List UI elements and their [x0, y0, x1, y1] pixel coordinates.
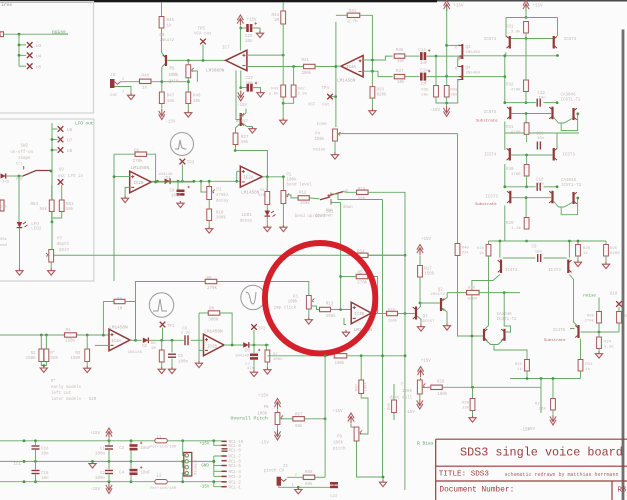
- wire -15V rail: [0, 481, 155, 483]
- pin U4: [27, 53, 33, 59]
- wire pitch sum line: [0, 334, 109, 336]
- svg-text:VCF: VCF: [308, 104, 316, 108]
- svg-text:150K: 150K: [70, 357, 81, 361]
- header pin RC1-3: [222, 475, 227, 477]
- svg-text:SW2: SW2: [21, 145, 29, 149]
- wire one-shot pulse to R9: [136, 282, 206, 341]
- svg-text:R23: R23: [535, 403, 543, 407]
- wire +15V down: [525, 8, 527, 18]
- wire P4 wiper to R40 net: [338, 133, 458, 135]
- svg-text:R46: R46: [193, 95, 201, 99]
- svg-text:R12: R12: [299, 192, 307, 196]
- ground below C7: [250, 370, 257, 377]
- testpoint TP2: [251, 324, 257, 330]
- svg-text:470R: 470R: [511, 173, 521, 177]
- svg-text:470R: 470R: [511, 131, 521, 135]
- svg-text:-15V: -15V: [430, 109, 441, 113]
- svg-text:IC3A: IC3A: [346, 66, 357, 70]
- potentiometer P7 depth: [49, 250, 54, 263]
- wire bend node down: [404, 255, 406, 313]
- junction IC1A out: [134, 339, 137, 342]
- svg-text:2.2n: 2.2n: [181, 332, 191, 336]
- wire Q1 emitter: [417, 316, 421, 325]
- svg-text:5.6k: 5.6k: [269, 92, 279, 97]
- svg-text:100n: 100n: [95, 477, 106, 481]
- wire T2 collector tie: [504, 293, 510, 332]
- svg-text:C27: C27: [246, 77, 254, 81]
- wire to R6: [161, 340, 163, 350]
- svg-text:CA3046: CA3046: [561, 94, 577, 98]
- -15V arrow below IC7: [238, 91, 244, 102]
- svg-text:100k: 100k: [326, 314, 337, 319]
- wire to ground: [382, 477, 384, 480]
- svg-text:R36: R36: [396, 49, 404, 53]
- svg-text:VCA out: VCA out: [194, 33, 212, 37]
- wire R63 bottom: [52, 212, 62, 219]
- svg-text:R65: R65: [587, 315, 595, 319]
- wire Q1 collector diag: [417, 303, 420, 310]
- svg-text:C1: C1: [100, 448, 106, 452]
- transistor Q6 2N5172: [165, 55, 167, 66]
- wire IC4 T4 emitter to bias node: [472, 275, 500, 388]
- svg-text:300k: 300k: [216, 216, 227, 221]
- wire SW1 to R14: [343, 191, 357, 194]
- ground at mid rail: [89, 461, 96, 468]
- svg-text:3.3k: 3.3k: [298, 92, 308, 97]
- resistor R44 1M: [281, 11, 286, 24]
- svg-text:+15V: +15V: [421, 238, 432, 242]
- wire T4 emitter: [505, 52, 507, 55]
- svg-text:3.9k: 3.9k: [511, 30, 521, 35]
- svg-text:10k: 10k: [397, 59, 405, 64]
- capacitor C1 100n: [105, 445, 113, 449]
- transistor IC5T4: [509, 148, 511, 161]
- svg-text:RC1-3: RC1-3: [229, 476, 242, 480]
- svg-text:1.8k: 1.8k: [511, 226, 521, 231]
- junction R27 node: [234, 149, 237, 152]
- svg-text:-15V: -15V: [90, 488, 101, 492]
- capacitor C12 10n: [537, 99, 541, 107]
- svg-text:TP3: TP3: [187, 162, 195, 166]
- svg-text:R41: R41: [302, 59, 310, 63]
- svg-text:150K: 150K: [26, 357, 37, 361]
- junction T2 collector: [576, 112, 579, 115]
- potentiometer P2 100k: [281, 191, 286, 204]
- svg-text:2.7M: 2.7M: [348, 20, 359, 24]
- junction bases / R31b: [525, 112, 528, 115]
- svg-text:-15V: -15V: [520, 429, 531, 433]
- ground at Q5 emitter: [249, 127, 256, 134]
- wire IC6 emitter rail: [462, 55, 557, 57]
- wire Q6 base to opamp output: [167, 59, 225, 61]
- resistor R35 56k: [434, 86, 439, 98]
- opamp IC3A LM1458N: [341, 55, 363, 76]
- wire R44 to +in node: [282, 24, 284, 55]
- resistor R64 56k: [49, 200, 54, 212]
- jack J3 pinch CV: [277, 477, 281, 486]
- svg-text:GND: GND: [201, 464, 209, 468]
- wire lower -15V rail: [510, 378, 581, 380]
- junction P1 wiper: [200, 180, 203, 183]
- svg-text:+15V: +15V: [90, 432, 101, 436]
- svg-text:1M: 1M: [274, 19, 280, 23]
- wire R25 top: [605, 241, 607, 245]
- wire C4 bottom: [130, 475, 132, 482]
- wire to RC1-3: [214, 475, 222, 477]
- wire to U6: [52, 128, 58, 130]
- svg-text:LFO: LFO: [31, 223, 39, 227]
- resistor R55 100k: [334, 354, 347, 358]
- wire +15V to RC1-10: [167, 440, 221, 442]
- wire J2 sleeve to ground: [115, 87, 132, 94]
- junction TP3: [181, 180, 184, 183]
- wire IC1A fb left leg: [102, 302, 104, 336]
- wire C7 to ground: [253, 360, 255, 372]
- resistor R36 10k: [394, 54, 405, 58]
- wire R32 bottom: [525, 92, 527, 103]
- potentiometer P5 100k gain: [186, 65, 191, 78]
- svg-text:eed: eed: [0, 243, 7, 248]
- wire RC1 gnd riser: [213, 456, 215, 476]
- svg-text:R38: R38: [451, 89, 459, 93]
- wire R30 bottom: [526, 176, 528, 187]
- wire C13 to Q3 gate: [427, 55, 459, 57]
- header pin RC1-4: [222, 470, 227, 472]
- header pin RC1-2: [222, 481, 227, 483]
- wire D3 out: [250, 344, 269, 346]
- wire R35 top: [435, 56, 437, 85]
- wire to U5: [19, 65, 26, 67]
- connector JP1 pin: [185, 454, 188, 457]
- ground below R33: [369, 109, 376, 116]
- svg-text:100k: 100k: [300, 201, 311, 206]
- wire Q2 emitter: [442, 308, 447, 324]
- svg-text:pinch CV: pinch CV: [264, 468, 285, 473]
- diode D4 1N4148: [165, 179, 171, 185]
- svg-text:100n: 100n: [95, 453, 106, 457]
- junction +in / R43 node: [282, 54, 285, 57]
- wire to RC1-7: [214, 455, 222, 457]
- wire R27 bottom: [235, 145, 237, 151]
- svg-text:10n: 10n: [245, 40, 253, 44]
- svg-text:200k: 200k: [302, 71, 313, 76]
- svg-text:10n: 10n: [537, 137, 545, 141]
- junction T3 emitter: [556, 54, 559, 57]
- svg-text:C8: C8: [169, 190, 175, 194]
- svg-text:RC1-8: RC1-8: [229, 450, 242, 454]
- svg-text:+15V: +15V: [333, 410, 344, 414]
- wire rail to R32: [525, 39, 527, 81]
- svg-text:schematic redrawn by matthias: schematic redrawn by matthias herrmann: [505, 472, 619, 478]
- svg-text:U6: U6: [67, 128, 73, 133]
- wire bend vertical: [382, 200, 384, 478]
- svg-text:out: out: [322, 104, 330, 108]
- junction fb/+in: [339, 308, 342, 311]
- transistor IC4T1: [483, 329, 485, 341]
- svg-text:-15V: -15V: [405, 411, 416, 415]
- resistor R19 820R: [467, 290, 480, 294]
- svg-text:47n: 47n: [247, 367, 255, 371]
- resistor R3 150K: [85, 349, 90, 362]
- svg-text:1N4148: 1N4148: [235, 355, 250, 359]
- svg-text:R10: R10: [216, 212, 224, 216]
- wire to C8: [177, 181, 179, 189]
- svg-text:R3: R3: [75, 352, 81, 356]
- wire J3 sleeve: [279, 486, 299, 488]
- opamp IC1A: [109, 329, 130, 351]
- svg-text:R40: R40: [462, 247, 470, 251]
- svg-text:U3: U3: [36, 44, 42, 49]
- wire Q3 source to Q4 drain: [457, 58, 460, 67]
- svg-text:ires: ires: [1, 2, 12, 8]
- svg-text:L2: L2: [157, 475, 163, 479]
- svg-text:C18: C18: [41, 472, 49, 476]
- junction IC2A +in: [235, 180, 238, 183]
- svg-text:R32: R32: [506, 84, 514, 88]
- svg-text:22k: 22k: [462, 251, 470, 256]
- svg-text:U4: U4: [36, 54, 42, 59]
- svg-text:LM1458N: LM1458N: [204, 330, 223, 335]
- wire R bias vertical: [404, 356, 406, 490]
- capacitor C26 10n: [246, 24, 252, 32]
- junction J3 ground: [297, 486, 300, 489]
- svg-text:bend level: bend level: [287, 183, 313, 188]
- wire C8 to ground: [180, 197, 182, 203]
- header pin RC1-1: [222, 486, 227, 488]
- resistor R12 100k: [298, 196, 309, 200]
- svg-text:down: down: [343, 205, 354, 210]
- wire to U7: [52, 139, 58, 141]
- transistor IC4T4: [500, 260, 502, 274]
- svg-text:10k: 10k: [397, 80, 405, 85]
- svg-text:300K: 300K: [208, 319, 219, 323]
- svg-text:1k: 1k: [479, 251, 484, 256]
- wire Q5 collector stub: [242, 109, 246, 117]
- svg-text:56k: 56k: [421, 93, 429, 98]
- svg-text:P9: P9: [337, 436, 343, 440]
- svg-text:-148: -148: [0, 181, 10, 185]
- wire C18a top: [35, 441, 37, 445]
- svg-text:IC1: IC1: [13, 463, 21, 467]
- wire T5 node: [504, 103, 506, 122]
- wire R14 to bend node: [368, 192, 405, 255]
- resistor R41 200k: [304, 64, 316, 68]
- wire C2 top: [108, 461, 110, 469]
- wire overall pitch line P7 wiper to bend node: [54, 254, 405, 256]
- svg-text:ext LFO in: ext LFO in: [58, 174, 84, 179]
- capacitor C13 1uF: [420, 52, 426, 60]
- wire R47 to -15V: [161, 104, 163, 109]
- wire R28 to mid node: [442, 386, 541, 388]
- wire +15V down to R38: [446, 8, 448, 86]
- wire to Q3 drain: [447, 44, 462, 46]
- ground at Q1 emitter: [417, 325, 424, 332]
- svg-text:R47: R47: [167, 95, 175, 99]
- svg-text:LED2: LED2: [31, 228, 42, 232]
- svg-text:RC1-2: RC1-2: [229, 482, 242, 486]
- wire IC5 T2 emitter: [561, 203, 572, 208]
- wire GND into JP1 pin3: [183, 460, 186, 462]
- wire loop left down: [504, 133, 506, 150]
- junction IC2B out: [154, 181, 157, 184]
- wire R46 to ground: [187, 104, 189, 111]
- wire R4 to output: [125, 302, 135, 341]
- svg-text:POF: POF: [16, 178, 24, 182]
- wire TP1 down: [162, 328, 164, 341]
- wire C3 bottom: [130, 451, 132, 462]
- wire P5 bottom to R46: [187, 78, 189, 92]
- -15V arrow below R35/R38: [444, 106, 450, 117]
- wire noise to R65: [598, 298, 600, 312]
- wire T1 wiper to R28: [423, 386, 431, 388]
- junction R11 tap: [266, 175, 269, 178]
- opamp IC3B LM1458N: [351, 302, 371, 324]
- ground below R10: [206, 227, 213, 234]
- capacitor C18a 10n: [32, 445, 40, 449]
- svg-text:2N5459: 2N5459: [466, 72, 481, 76]
- ground below R7: [264, 368, 271, 375]
- connector JP1 pin: [185, 460, 188, 463]
- wire sheet edge to R44: [282, 3, 284, 12]
- svg-text:1k: 1k: [142, 86, 148, 91]
- svg-text:Q5: Q5: [239, 115, 245, 119]
- wire T4 collector up: [499, 241, 501, 258]
- svg-text:100k: 100k: [437, 392, 448, 397]
- header pin RC1-8: [222, 449, 228, 451]
- resistor R65 470R (edge): [0, 200, 4, 211]
- resistor R5 270k: [356, 274, 368, 278]
- junction R26: [471, 386, 474, 389]
- svg-text:10uF: 10uF: [171, 195, 182, 199]
- wire R16 to node: [398, 313, 406, 315]
- svg-text:Q2: Q2: [438, 289, 444, 293]
- svg-text:Substrate: Substrate: [544, 338, 566, 343]
- diode D3 1N4148: [243, 342, 249, 348]
- resistor R65 270k: [597, 312, 602, 324]
- junction IC2B +in: [113, 175, 116, 178]
- wire R13 to IC3B +in: [331, 309, 352, 311]
- svg-text:56k: 56k: [241, 140, 249, 145]
- wire IC5 collector loop: [505, 132, 579, 134]
- wire loop right down: [557, 18, 559, 37]
- LFO section frame box: [0, 119, 94, 281]
- wire R2 top: [40, 335, 42, 349]
- svg-text:gain: gain: [59, 248, 70, 253]
- wire IC1B out: [224, 344, 243, 346]
- +15V supply arrow: [106, 428, 112, 439]
- wire +in to trigger line: [236, 171, 238, 181]
- wire to P2: [282, 177, 284, 191]
- header pin RC1-5: [222, 465, 227, 467]
- svg-text:decay: decay: [240, 218, 253, 223]
- transistor IC6T2: [572, 108, 574, 120]
- capacitor C4 10uF: [130, 469, 138, 475]
- wire down to R67 line: [404, 314, 406, 357]
- wire IC1B input line: [149, 339, 184, 341]
- svg-text:100k: 100k: [402, 389, 413, 394]
- wire loop left down: [505, 18, 507, 38]
- resistor R1 150K: [65, 333, 77, 337]
- wire loop right down: [556, 133, 558, 149]
- trimmer T1 100k dist null: [417, 380, 422, 394]
- svg-text:270k: 270k: [584, 319, 594, 324]
- resistor R15 1k: [486, 245, 491, 257]
- wire C9 collector link: [503, 257, 535, 259]
- svg-text:R Bias: R Bias: [417, 441, 434, 447]
- svg-text:noise: noise: [583, 294, 596, 299]
- resistor R38 56k: [444, 86, 449, 98]
- svg-text:IC2A: IC2A: [243, 177, 254, 181]
- svg-text:1k: 1k: [583, 251, 588, 256]
- svg-text:Ferrite/10R: Ferrite/10R: [150, 486, 177, 491]
- wire IC6 collector loop top: [506, 17, 558, 19]
- transistor IC6T3: [553, 36, 555, 49]
- svg-text:IC6T4: IC6T4: [484, 38, 497, 42]
- wire C26 to ground: [253, 28, 260, 31]
- svg-text:10n: 10n: [246, 82, 254, 86]
- wire to U4: [19, 54, 26, 56]
- wire GND rail: [0, 460, 214, 462]
- wire IC3A -in to R37: [363, 71, 393, 76]
- svg-text:Substrate: Substrate: [476, 119, 498, 124]
- wire R34 left leg: [336, 14, 347, 16]
- resistor R10 300k: [207, 209, 212, 221]
- red annotation circle: [265, 243, 375, 353]
- junction IC6 collector loop: [525, 16, 528, 19]
- +15V supply arrow: [348, 413, 354, 424]
- wire bottom rail: [489, 240, 607, 242]
- wire P1 top: [208, 181, 210, 186]
- wire R9 to P3 top: [217, 282, 309, 296]
- wire to R43: [282, 55, 284, 85]
- junction IC1A +in: [102, 334, 105, 337]
- decay curve circle icon: [241, 285, 265, 309]
- svg-text:100k: 100k: [168, 73, 179, 78]
- junction -in / R33: [371, 70, 374, 73]
- wire to D5: [114, 153, 135, 155]
- svg-text:22k: 22k: [462, 406, 470, 411]
- svg-text:150k: 150k: [388, 318, 398, 323]
- capacitor C5 100n: [168, 354, 176, 358]
- svg-text:R8: R8: [618, 487, 627, 495]
- wire P1 wiper up: [201, 181, 207, 192]
- wire Q5 to R27: [236, 124, 240, 133]
- wire T5 base stub: [570, 328, 575, 330]
- svg-text:P8: P8: [264, 406, 270, 410]
- capacitor C6 2.2n: [184, 335, 188, 345]
- pin U9 ext LFO in: [58, 179, 64, 185]
- svg-text:-15V: -15V: [166, 121, 177, 125]
- wire C1 bottom: [108, 450, 110, 461]
- junction R65/R24: [598, 331, 601, 334]
- ground below R6: [158, 367, 165, 374]
- wire R* top: [45, 335, 47, 349]
- resistor R27 56k: [233, 133, 238, 145]
- wire IC4 T1 T2 emitters: [485, 340, 503, 345]
- resistor R42 3.3k: [291, 85, 296, 97]
- svg-text:Q4: Q4: [466, 67, 472, 71]
- svg-text:1k: 1k: [167, 24, 173, 29]
- transistor IC5T2: [572, 192, 574, 204]
- junction trigger: [156, 180, 159, 183]
- resistor R58 68k: [303, 475, 315, 479]
- wire T1 collector stub: [485, 326, 488, 329]
- wire LED1 to ground: [266, 217, 268, 225]
- svg-text:R15: R15: [477, 247, 485, 251]
- -15V arrow below R23: [550, 415, 556, 426]
- wire C6 to IC1B: [191, 339, 204, 341]
- svg-text:R31: R31: [506, 126, 514, 130]
